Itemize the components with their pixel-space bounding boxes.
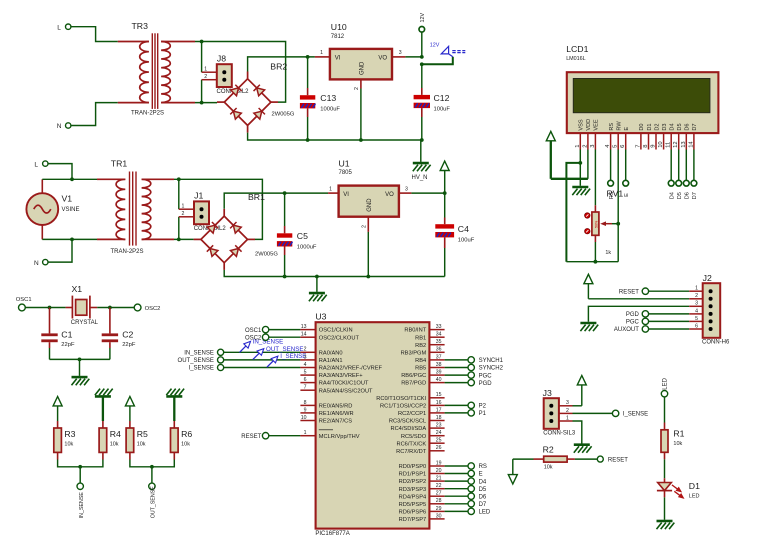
wire U3 to terminal P1 (445, 412, 468, 414)
svg-text:38: 38 (436, 362, 442, 368)
power terminal 12V (419, 13, 426, 57)
svg-text:LM016L: LM016L (566, 56, 585, 62)
wire U3 to terminal SYNCH2 (445, 367, 468, 369)
svg-text:26: 26 (436, 445, 442, 451)
svg-text:RA2/AN2/VREF-/CVREF: RA2/AN2/VREF-/CVREF (319, 366, 383, 372)
svg-text:2: 2 (304, 347, 307, 353)
svg-text:24: 24 (436, 430, 442, 436)
svg-text:D6: D6 (479, 494, 487, 500)
terminal RESET (to U3) (241, 433, 269, 440)
svg-text:R5: R5 (137, 429, 148, 439)
svg-text:D7: D7 (479, 502, 487, 508)
svg-text:J8: J8 (217, 54, 226, 64)
terminal N (mains) (34, 259, 48, 266)
svg-text:22: 22 (436, 483, 442, 489)
svg-text:LCD1: LCD1 (566, 44, 588, 54)
svg-text:CRYSTAL: CRYSTAL (71, 320, 99, 326)
wire LCD VEE to RV1 top (594, 150, 596, 206)
wire TR3 secondary top to BR2 right corner (195, 42, 286, 103)
svg-text:3: 3 (405, 186, 408, 192)
svg-text:E: E (479, 472, 483, 478)
svg-text:BR2: BR2 (270, 61, 287, 71)
LCD LCD1 LM016L (566, 44, 718, 133)
ground HV_N (412, 140, 431, 181)
LCD pin 13 D6 (681, 123, 691, 149)
svg-text:36: 36 (436, 347, 442, 353)
terminal I_SENSE (to U3) (189, 364, 224, 371)
svg-text:C1: C1 (61, 329, 72, 339)
svg-text:C12: C12 (434, 93, 450, 103)
svg-text:OUT_SENSE: OUT_SENSE (178, 358, 214, 364)
svg-text:10k: 10k (137, 441, 146, 447)
LCD pin 14 D7 (688, 123, 698, 149)
svg-text:14: 14 (688, 141, 694, 148)
svg-text:VO: VO (385, 192, 394, 198)
wire U3 to terminal D6 (445, 495, 468, 497)
svg-text:RESET: RESET (241, 434, 261, 440)
svg-text:8: 8 (643, 145, 649, 148)
svg-text:TR1: TR1 (111, 159, 128, 169)
wire U3 to terminal PGC (445, 374, 468, 376)
svg-text:4: 4 (695, 308, 698, 314)
wire AUXOUT to J2 pin 6 (649, 328, 690, 330)
svg-text:E: E (624, 193, 630, 197)
svg-text:OSC1/CLKIN: OSC1/CLKIN (319, 328, 353, 334)
connector J1 CONN-SIL2 (179, 191, 227, 233)
terminal SYNCH2 (U3 right) (468, 364, 504, 371)
svg-text:OUT_SENSE: OUT_SENSE (266, 346, 303, 353)
svg-text:D5: D5 (677, 123, 683, 130)
wire U3 to terminal RS (445, 465, 468, 467)
terminal PGD (J2) (626, 311, 649, 318)
net label OUT_SENSE (blue flag) (253, 346, 304, 360)
svg-text:I_SENSE: I_SENSE (623, 412, 648, 418)
svg-text:17: 17 (436, 407, 442, 413)
svg-text:OUT_SENSE: OUT_SENSE (151, 486, 157, 519)
terminal OUT_SENSE (to U3) (178, 357, 224, 364)
svg-text:7812: 7812 (331, 34, 345, 40)
svg-text:D4: D4 (670, 192, 676, 199)
svg-text:D5: D5 (677, 192, 683, 199)
svg-text:RC7/RX/DT: RC7/RX/DT (396, 449, 427, 455)
terminal D6 (LCD) (683, 150, 690, 200)
svg-text:VEE: VEE (594, 119, 600, 130)
svg-text:1k: 1k (605, 250, 611, 256)
wire PGD to J2 pin 4 (649, 313, 690, 315)
junction at J1 pin 2 branch (177, 238, 181, 242)
svg-text:GND: GND (367, 198, 373, 212)
svg-text:10k: 10k (544, 464, 553, 470)
svg-text:RB4: RB4 (415, 358, 426, 364)
svg-text:J3: J3 (543, 388, 552, 398)
wire BR1 bottom to ground rail (224, 270, 445, 277)
terminal L (mains) (34, 161, 48, 168)
svg-text:C4: C4 (458, 224, 469, 234)
svg-text:21: 21 (436, 476, 442, 482)
junction at J8 pin 2 branch (200, 101, 204, 105)
terminal OSC1 (crystal) (16, 297, 32, 311)
svg-text:VSS: VSS (579, 119, 585, 130)
wire BR1 output to U1 input rail (224, 193, 328, 209)
svg-text:I_SENSE: I_SENSE (280, 353, 306, 360)
LCD pin 8 D1 (643, 123, 653, 149)
junction ground stem at rail (315, 275, 319, 279)
terminal OSC2 (crystal) (134, 304, 160, 312)
svg-text:L: L (57, 24, 61, 31)
svg-text:P2: P2 (479, 404, 487, 410)
svg-text:RB0/INT: RB0/INT (404, 328, 426, 334)
wire J1 pin 2 riser (178, 217, 180, 240)
wire L terminal to V1/TR1 top (48, 164, 72, 180)
wire N terminal to TR3 primary bottom (71, 103, 118, 126)
wire power to J2 pin 2 (588, 298, 689, 300)
wire OSC1 to U3 pin 13 (269, 329, 301, 331)
svg-text:D6: D6 (685, 192, 691, 199)
LCD pin 3 VEE (590, 119, 600, 149)
junction RV1 wiper / RW (616, 222, 620, 226)
svg-text:VSINE: VSINE (62, 207, 80, 213)
svg-text:10k: 10k (181, 441, 190, 447)
junction C5 bottom (283, 275, 287, 279)
svg-text:R4: R4 (110, 429, 121, 439)
svg-text:D4: D4 (479, 479, 487, 485)
wire J3 pin 1 to ground (573, 421, 582, 444)
wire crystal caps bottom rail (50, 358, 110, 360)
wire power to LCD VDD (551, 150, 588, 179)
svg-text:10k: 10k (64, 441, 73, 447)
svg-text:R2: R2 (543, 445, 554, 455)
terminal D6 (U3 right) (468, 493, 487, 500)
wire VSS node to pot bottom rail (566, 163, 580, 262)
bridge rectifier BR2 2W005G (217, 61, 295, 132)
ground above R4 (95, 389, 113, 421)
svg-text:39: 39 (436, 370, 442, 376)
junction V1 bottom (70, 238, 74, 242)
svg-text:2W005G: 2W005G (255, 251, 278, 257)
wire BR2 bottom to ground rail (248, 133, 422, 140)
terminal P1 (U3 right) (468, 410, 487, 417)
svg-text:AUXOUT: AUXOUT (614, 327, 639, 333)
wire LCD VSS down (579, 150, 581, 163)
svg-text:RC1/T1OSI/CCP2: RC1/T1OSI/CCP2 (380, 404, 426, 410)
svg-text:P1: P1 (479, 411, 487, 417)
svg-text:3: 3 (566, 400, 569, 406)
power arrow above R5 (125, 397, 134, 422)
svg-text:6: 6 (620, 145, 626, 148)
regulator U10 7812 (315, 22, 406, 140)
junction ground rail end / C12 / HV_N (420, 138, 424, 142)
capacitor C4 100uF (435, 193, 474, 276)
svg-text:PIC16F877A: PIC16F877A (315, 531, 349, 537)
svg-text:TRAN-2P2S: TRAN-2P2S (131, 111, 164, 117)
svg-text:RA4/T0CKI/C1OUT: RA4/T0CKI/C1OUT (319, 381, 369, 387)
terminal OSC1 (to U3) (245, 326, 269, 333)
svg-text:SYNCH2: SYNCH2 (479, 366, 504, 372)
svg-text:1000uF: 1000uF (320, 106, 340, 112)
svg-text:3: 3 (590, 145, 596, 148)
regulator U1 7805 (328, 159, 411, 277)
junction U10 ground pin at rail (359, 138, 363, 142)
svg-text:1: 1 (182, 203, 185, 209)
svg-text:9: 9 (304, 407, 307, 413)
svg-text:3: 3 (304, 354, 307, 360)
svg-text:PGC: PGC (626, 320, 640, 326)
svg-text:RS: RS (609, 123, 615, 131)
svg-text:1: 1 (320, 50, 323, 56)
wire J8 pin 2 riser (201, 80, 203, 103)
ground below crystal caps (72, 359, 90, 385)
svg-text:N: N (34, 260, 39, 267)
svg-text:U3: U3 (315, 311, 326, 321)
junction C5 top (283, 191, 287, 195)
wire U3 to terminal LED (445, 510, 468, 512)
svg-text:RB7/PGD: RB7/PGD (401, 381, 426, 387)
terminal D4 (LCD) (668, 150, 675, 200)
svg-text:13: 13 (681, 141, 687, 147)
svg-text:7: 7 (635, 145, 641, 148)
resistor R6 10k (152, 421, 192, 467)
svg-text:1: 1 (304, 430, 307, 436)
connector J8 CONN-SIL2 (202, 54, 250, 95)
svg-text:VO: VO (378, 55, 387, 61)
svg-text:3: 3 (695, 301, 698, 307)
svg-text:RC5/SDO: RC5/SDO (401, 434, 427, 440)
svg-text:RESET: RESET (619, 289, 639, 295)
svg-text:U10: U10 (331, 22, 347, 32)
svg-text:12V: 12V (430, 42, 440, 48)
svg-text:14: 14 (301, 332, 307, 338)
svg-text:35: 35 (436, 339, 442, 345)
svg-text:RA5/AN4/SS/C2OUT: RA5/AN4/SS/C2OUT (319, 388, 373, 394)
svg-text:12V: 12V (420, 13, 426, 23)
junction pot bottom (594, 260, 598, 264)
svg-text:VI: VI (343, 192, 349, 198)
terminal N (top supply) (57, 123, 71, 130)
junction V1 top (70, 177, 74, 181)
transformer TR3 (118, 21, 195, 117)
svg-text:RE2/AN7/CS: RE2/AN7/CS (319, 419, 352, 425)
crystal X1 (66, 284, 99, 326)
connector J2 CONN-H6 (689, 273, 730, 346)
terminal I_SENSE (J3) (612, 410, 648, 417)
ground below LCD VSS (572, 163, 590, 195)
LCD pin 7 D0 (635, 123, 645, 149)
LCD pin 5 RW (613, 121, 623, 150)
junction C2 top (108, 306, 112, 310)
terminal E (LCD) (623, 150, 630, 197)
svg-text:D3: D3 (662, 123, 668, 130)
svg-text:13: 13 (301, 324, 307, 330)
svg-text:IN_SENSE: IN_SENSE (79, 492, 85, 519)
svg-text:RE0/AN5/RD: RE0/AN5/RD (319, 404, 353, 410)
wire U10 output to 12V node (405, 56, 421, 58)
svg-text:50%: 50% (594, 220, 598, 228)
terminal SYNCH1 (U3 right) (468, 357, 504, 364)
svg-text:1: 1 (204, 66, 207, 72)
terminal IN_SENSE (to U3) (184, 349, 223, 356)
ground below U1 rail (309, 277, 327, 302)
wire crystal to OSC2 terminal (97, 307, 134, 309)
LCD pin 11 D4 (666, 123, 676, 149)
junction 12V node (420, 55, 424, 66)
terminal D7 (LCD) (691, 150, 698, 200)
wire pot bottom rail (566, 261, 618, 263)
svg-text:RB1: RB1 (415, 335, 426, 341)
svg-text:RA1/AN1: RA1/AN1 (319, 358, 343, 364)
wire J8 pin 1 riser (201, 42, 203, 73)
svg-text:1000uF: 1000uF (297, 245, 317, 251)
wire V1 bottom to TR1 primary (42, 238, 97, 240)
svg-text:100uF: 100uF (434, 106, 451, 112)
svg-text:5: 5 (695, 316, 698, 322)
svg-text:1: 1 (329, 186, 332, 192)
LCD pin 4 RS (605, 123, 615, 150)
svg-text:RB5: RB5 (415, 366, 426, 372)
wire 12V label stub (422, 57, 453, 65)
junction at J1 pin 1 branch (177, 177, 181, 181)
wire U3 to terminal P2 (445, 404, 468, 406)
svg-text:RD6/PSP6: RD6/PSP6 (399, 510, 427, 516)
svg-text:VDD: VDD (586, 119, 592, 131)
svg-text:9: 9 (651, 145, 657, 148)
svg-text:RD3/PSP3: RD3/PSP3 (399, 487, 427, 493)
junction U1 ground at rail (366, 275, 370, 279)
terminal AUXOUT (J2) (614, 326, 649, 333)
svg-text:29: 29 (436, 506, 442, 512)
terminal L (top supply) (57, 24, 71, 31)
svg-text:5: 5 (304, 370, 307, 376)
terminal E (U3 right) (468, 470, 483, 477)
svg-text:GND: GND (360, 61, 366, 75)
terminal P2 (U3 right) (468, 402, 487, 409)
svg-text:2: 2 (354, 87, 360, 90)
svg-text:D5: D5 (479, 487, 487, 493)
svg-text:23: 23 (436, 423, 442, 429)
terminal RS (U3 right) (468, 463, 487, 470)
svg-text:10k: 10k (110, 441, 119, 447)
svg-text:34: 34 (436, 332, 442, 338)
microcontroller U3 PIC16F877A (300, 311, 444, 537)
power arrow above R3 (53, 397, 62, 422)
svg-text:D2: D2 (654, 123, 660, 130)
junction C1 top (48, 306, 52, 310)
LED D1 (657, 478, 700, 499)
ground below J3 (574, 445, 592, 453)
svg-text:D7: D7 (692, 192, 698, 199)
capacitor C12 100uF (414, 88, 451, 140)
terminal OSC2 (to U3) (245, 334, 269, 341)
svg-text:PGD: PGD (626, 312, 640, 318)
resistor R2 10k (534, 445, 575, 471)
power arrow at U1 output (440, 161, 449, 193)
net label 12V (blue flag) (430, 42, 466, 56)
svg-text:J2: J2 (703, 273, 712, 283)
svg-text:OSC2: OSC2 (145, 306, 161, 312)
svg-text:33: 33 (436, 324, 442, 330)
svg-text:7: 7 (304, 385, 307, 391)
terminal LED (U3 right) (468, 508, 491, 515)
svg-text:SYNCH1: SYNCH1 (479, 358, 504, 364)
LCD pin 2 VDD (582, 119, 592, 150)
power arrow (down) at R2 (508, 459, 517, 484)
svg-text:D1: D1 (647, 123, 653, 130)
wire U3 to terminal PGD (445, 382, 468, 384)
wire OUT_SENSE to RA1 (224, 359, 301, 361)
svg-text:OSC2: OSC2 (245, 335, 262, 341)
svg-text:22pF: 22pF (122, 342, 136, 348)
wire U3 to terminal D7 (445, 503, 468, 505)
wire L terminal to TR3 primary top (71, 27, 118, 42)
svg-text:RC4/SDI/SDA: RC4/SDI/SDA (390, 426, 426, 432)
svg-text:HV_N: HV_N (412, 175, 428, 181)
svg-text:8: 8 (304, 400, 307, 406)
wire U3 to terminal E (445, 473, 468, 475)
svg-text:RD4/PSP4: RD4/PSP4 (399, 494, 427, 500)
wire I_SENSE to RA2 (224, 367, 301, 369)
svg-text:CONN-SIL3: CONN-SIL3 (543, 430, 576, 436)
svg-text:30: 30 (436, 513, 442, 519)
svg-text:6: 6 (695, 323, 698, 329)
svg-text:E: E (624, 127, 630, 131)
wire U3 to terminal D5 (445, 488, 468, 490)
wire U3 to terminal D4 (445, 480, 468, 482)
svg-text:22pF: 22pF (61, 342, 75, 348)
wire IN_SENSE to RA0 (224, 351, 301, 353)
LCD pin 6 E (620, 127, 630, 150)
power arrow at J2 pin 2 (584, 274, 593, 299)
svg-text:RC2/CCP1: RC2/CCP1 (398, 411, 426, 417)
wire 12V node down to C12 (421, 64, 423, 88)
svg-text:RD7/PSP7: RD7/PSP7 (399, 517, 427, 523)
svg-text:11: 11 (666, 142, 672, 148)
svg-text:LED: LED (663, 377, 669, 389)
svg-text:LED: LED (689, 493, 700, 499)
wire U1 output to C4 node (411, 192, 444, 194)
svg-text:RE1/AN6/WR: RE1/AN6/WR (319, 411, 354, 417)
terminal D5 (LCD) (676, 150, 683, 200)
net label I_SENSE (blue flag) (267, 353, 307, 367)
resistor R4 10k (80, 421, 121, 467)
terminal RESET (R2) (597, 456, 628, 463)
ground at J2 pin 3 (580, 306, 689, 331)
svg-text:PGC: PGC (479, 373, 493, 379)
wire BR2 output to U10 input rail (248, 57, 315, 72)
junction U1 output node (443, 191, 447, 195)
wire R1 to D1 (664, 459, 666, 478)
svg-text:15: 15 (436, 392, 442, 398)
svg-text:RD2/PSP2: RD2/PSP2 (399, 479, 427, 485)
potentiometer RV1 1k (585, 188, 624, 261)
svg-text:RB6/PGC: RB6/PGC (401, 373, 426, 379)
resistor R5 10k (126, 421, 152, 467)
capacitor C13 1000uF (300, 57, 341, 140)
wire TR1 secondary bottom to BR1 left corner (174, 238, 194, 240)
svg-text:20: 20 (436, 468, 442, 474)
wire TR1 secondary top to BR1 right corner (174, 179, 262, 239)
svg-text:N: N (57, 123, 62, 130)
svg-text:RC0/T1OSO/T1CKI: RC0/T1OSO/T1CKI (376, 396, 426, 402)
junction VSS node (578, 161, 582, 165)
svg-text:L: L (34, 161, 38, 168)
svg-text:OSC2/CLKOUT: OSC2/CLKOUT (319, 335, 360, 341)
svg-text:RD1/PSP1: RD1/PSP1 (399, 472, 427, 478)
wire OSC1 to crystal rail (25, 307, 65, 309)
svg-text:OSC1: OSC1 (245, 328, 262, 334)
svg-text:RB2: RB2 (415, 343, 426, 349)
net label IN_SENSE (blue flag) (240, 338, 284, 352)
svg-text:I_SENSE: I_SENSE (189, 366, 214, 372)
svg-text:OSC1: OSC1 (16, 297, 32, 303)
